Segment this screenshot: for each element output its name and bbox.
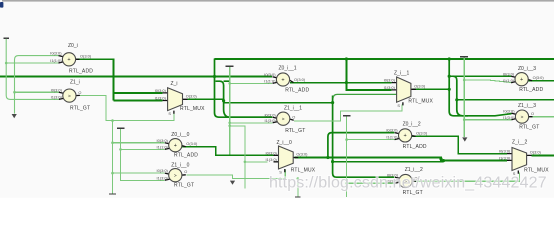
wire: Z_i__0 I1 <box>245 161 268 163</box>
wire: vertical V1 x=214.5 curving to GT1 I0 <box>215 59 273 118</box>
svg-text:Z_i__2: Z_i__2 <box>512 140 528 146</box>
adder Z0_i__1 <box>264 66 309 94</box>
svg-text:O: O <box>531 111 534 116</box>
wire: main input bus y=76.5 across to Z0_i__1.I0 <box>0 76 272 78</box>
svg-text:I0(3:0): I0(3:0) <box>264 112 276 117</box>
svg-text:RTL_GT: RTL_GT <box>519 125 539 131</box>
net marker T x=120.5 <box>117 127 125 129</box>
wire: Z1_i__1 output to Z_i__1 select <box>294 105 402 121</box>
svg-text:I1(3:0): I1(3:0) <box>155 96 167 101</box>
comparator Z1_i <box>51 80 91 112</box>
svg-text:I1(1:0): I1(1:0) <box>264 79 276 84</box>
svg-text:I0(3:0): I0(3:0) <box>266 150 278 155</box>
svg-text:I0(3:0): I0(3:0) <box>384 78 396 83</box>
svg-text:O: O <box>78 90 81 95</box>
svg-text:Z1_i__0: Z1_i__0 <box>171 163 189 169</box>
svg-text:I1(1:0): I1(1:0) <box>157 145 169 150</box>
wire: bus y=100.4 from bracket2 to right edge <box>457 99 554 101</box>
svg-text:I1(1:0): I1(1:0) <box>50 58 62 63</box>
wire: rail x=346.4 from bus to Z_i__1 mux I1 <box>346 59 391 90</box>
wire: Z0_i__0 output with step down <box>182 147 274 156</box>
svg-text:+: + <box>174 143 177 149</box>
svg-text:I0(3:0): I0(3:0) <box>157 138 169 143</box>
net arrow below Z1_i__0 output <box>230 181 235 185</box>
input port marker T top-left <box>3 37 9 39</box>
svg-text:RTL_ADD: RTL_ADD <box>285 88 309 94</box>
svg-text:I1(3:0): I1(3:0) <box>384 85 396 90</box>
junction dots dark <box>213 75 216 78</box>
svg-text:O(3:0): O(3:0) <box>80 54 92 59</box>
wire: branch to rail x=244.9 <box>230 126 245 189</box>
wire: Z0_i output down x=113.5 to Z_i mux inputs <box>76 59 114 100</box>
svg-text:I0(3:0): I0(3:0) <box>264 72 276 77</box>
adder Z0_i__3 <box>503 66 544 93</box>
svg-text:RTL_MUX: RTL_MUX <box>408 98 433 104</box>
svg-text:Z0_i__2: Z0_i__2 <box>403 121 421 127</box>
svg-text:O(3:0): O(3:0) <box>186 141 198 146</box>
wire: rail x=346.6 <box>346 117 348 197</box>
net marker T x=346.6 <box>343 115 351 117</box>
svg-text:+: + <box>403 133 406 139</box>
svg-text:I0(3:0): I0(3:0) <box>157 168 169 173</box>
wire: rail x=112.5 <box>112 121 114 194</box>
svg-text:O(3:0): O(3:0) <box>186 93 198 98</box>
comparator Z1_i__1 <box>264 105 305 133</box>
svg-text:RTL_MUX: RTL_MUX <box>524 168 549 174</box>
svg-text:I1(3:0): I1(3:0) <box>51 95 63 100</box>
net arrow at rail x=14.5 bottom <box>12 114 17 118</box>
comparator Z1_i__0 <box>157 163 195 189</box>
wire: bus y=59 from V1 to right edge <box>215 58 554 60</box>
svg-text:I0(3:0): I0(3:0) <box>50 51 62 56</box>
wire: Z1_i__2 I1 <box>347 182 395 184</box>
wire: Z1_i__2 output to Z_i__2 select <box>413 173 519 182</box>
wire: bus B2 y=102.6 to V2b <box>224 102 333 104</box>
mux Z_i__2 <box>499 140 549 177</box>
comparator Z1_i__3 <box>503 103 539 131</box>
wire: bus ripper bracket 2 <box>453 76 468 116</box>
svg-text:O: O <box>292 115 295 120</box>
svg-text:O(3:0): O(3:0) <box>533 75 545 80</box>
junction dots light <box>5 62 8 65</box>
svg-text:>: > <box>282 117 285 123</box>
wire: Z_i__1 mux output to V3 <box>412 88 449 90</box>
svg-text:RTL_MUX: RTL_MUX <box>291 168 316 174</box>
top toolbar bar <box>2 0 554 2</box>
net marker T2 x=464.2 <box>460 56 468 58</box>
svg-text:I0(3:0): I0(3:0) <box>503 108 515 113</box>
adder Z0_i <box>50 43 93 74</box>
svg-text:I0(3:0): I0(3:0) <box>386 128 398 133</box>
svg-text:I0(3:0): I0(3:0) <box>51 87 63 92</box>
svg-text:S: S <box>397 103 400 108</box>
mux Z_i__0 <box>266 140 316 175</box>
wire: Z1_i__3 output to right edge <box>529 116 554 118</box>
wire: Z0_i__3 I1 <box>464 80 511 83</box>
wire: Z1_i__1 I1 <box>230 122 273 124</box>
svg-text:+: + <box>520 77 523 83</box>
svg-text:I1(3:0): I1(3:0) <box>264 118 276 123</box>
wire: bus ripper bracket 1 <box>216 81 273 117</box>
wire: V2b branch y=161.6 <box>333 161 444 163</box>
wire: Z1_i__0 I0 <box>113 172 165 174</box>
wire: Z0_i input I1 <box>6 62 58 64</box>
svg-text:I0(3:0): I0(3:0) <box>155 88 167 93</box>
mux Z_i__1 <box>384 70 434 108</box>
net bar at rail x=112.5 bottom <box>109 193 116 195</box>
wire: branch from V2b top toward Z_i__1 <box>333 94 396 98</box>
wire: Z1_i output to Z_i mux select <box>80 95 174 120</box>
svg-text:Z0_i__1: Z0_i__1 <box>279 66 297 72</box>
svg-text:I1(1:0): I1(1:0) <box>503 78 515 83</box>
svg-text:RTL_ADD: RTL_ADD <box>69 69 93 75</box>
svg-text:Z0_i: Z0_i <box>68 43 78 49</box>
svg-text:Z_i__1: Z_i__1 <box>394 70 410 76</box>
svg-text:+: + <box>281 77 284 83</box>
wire: V2a from Z0_i__2 I0 down to Z_i__0 output bus <box>328 133 394 158</box>
window icon <box>0 2 3 8</box>
wire: Z_i mux output to bracket junction <box>188 99 224 102</box>
mux Z_i <box>155 81 205 116</box>
svg-text:RTL_ADD: RTL_ADD <box>519 87 543 93</box>
wire: vertical V3 x=449.2 curving to GT3 I0 <box>449 59 511 116</box>
svg-text:Z1_i: Z1_i <box>70 80 80 86</box>
wire: Z1_i__0 output to Z_i__0 select <box>186 170 285 179</box>
svg-text:Z0_i__3: Z0_i__3 <box>518 66 536 72</box>
wire: Z1_i__3 I1 <box>464 119 511 121</box>
svg-text:https://blog.csdn.net/weixin_4: https://blog.csdn.net/weixin_43442427 <box>269 175 547 192</box>
wire: Z0_i__2 I1 <box>347 139 395 141</box>
svg-text:I1(3:0): I1(3:0) <box>157 175 169 180</box>
svg-text:I0(3:0): I0(3:0) <box>503 71 515 76</box>
wire: stub down x=297.8 <box>297 179 299 197</box>
net marker T1 x=229.3 <box>225 65 233 67</box>
svg-text:I0(3:0): I0(3:0) <box>499 149 511 154</box>
svg-text:Z0_i__0: Z0_i__0 <box>171 132 189 138</box>
wire: Z0_i__1 I1 <box>230 82 273 84</box>
svg-text:RTL_GT: RTL_GT <box>174 183 194 189</box>
net bar at stub bottom <box>295 196 301 198</box>
svg-text:>: > <box>174 173 177 179</box>
svg-text:I1(3:0): I1(3:0) <box>266 157 278 162</box>
wire: Z0_i__3 I0 feed y=76.2 <box>449 75 511 77</box>
net arrow at rail x=464.2 bottom <box>462 137 467 141</box>
adder Z0_i__2 <box>386 121 427 150</box>
svg-text:RTL_ADD: RTL_ADD <box>174 152 198 158</box>
svg-text:O(3:0): O(3:0) <box>530 149 542 154</box>
wire: input rail x=6.2 curving into Z1_i I1 <box>6 39 59 100</box>
svg-text:O(3:0): O(3:0) <box>294 77 306 82</box>
svg-text:S: S <box>168 111 171 116</box>
svg-text:>: > <box>68 93 71 99</box>
svg-text:Z_i__0: Z_i__0 <box>277 140 293 146</box>
wire: Z0_i__1 output to Z_i__1 mux I0 <box>290 82 392 84</box>
svg-text:Z1_i__2: Z1_i__2 <box>405 167 423 173</box>
adder Z0_i__0 <box>157 132 199 158</box>
svg-text:O: O <box>184 169 187 174</box>
wire: rail x=229.7 <box>229 67 231 155</box>
wire: Z1_i input I0 <box>15 91 59 93</box>
svg-text:O(3:0): O(3:0) <box>416 131 428 136</box>
svg-text:I1(3:0): I1(3:0) <box>503 115 515 120</box>
svg-text:RTL_MUX: RTL_MUX <box>180 106 205 112</box>
svg-text:RTL_GT: RTL_GT <box>70 105 90 111</box>
svg-text:Z1_i__3: Z1_i__3 <box>518 103 536 109</box>
bottom light strip <box>0 198 554 200</box>
svg-text:>: > <box>521 114 524 120</box>
wire: rail x=464.2 <box>463 57 465 137</box>
svg-text:RTL_GT: RTL_GT <box>285 128 305 134</box>
wire: Z_i__2 mux output to right edge <box>532 154 554 156</box>
wire: Z_i__0 output bus to Z_i__2 mux I1 <box>295 158 507 161</box>
svg-text:O(3:0): O(3:0) <box>414 83 426 88</box>
svg-text:RTL_ADD: RTL_ADD <box>403 144 427 150</box>
wire: Z0_i__0 I1 <box>121 148 165 150</box>
wire: Z0_i__3 output to right edge <box>528 80 554 82</box>
wire: input rail x=14.5 from Z0_i I0 corner down <box>15 56 59 114</box>
comparator Z1_i__2 <box>387 167 423 196</box>
wire: rail x=120.5 to Z1_i__0 I1 <box>121 129 165 180</box>
svg-text:+: + <box>67 57 70 63</box>
wire: vertical V2b x=332.6 down to Z1_i__2 I0 <box>333 96 395 178</box>
wire: Z0_i__2 output to Z_i__2 mux I0 <box>412 136 507 153</box>
svg-text:Z1_i__1: Z1_i__1 <box>284 105 302 111</box>
svg-text:I1(1:0): I1(1:0) <box>386 135 398 140</box>
svg-text:Z_i: Z_i <box>171 81 178 87</box>
svg-text:I1(3:0): I1(3:0) <box>499 156 511 161</box>
svg-text:O(3:0): O(3:0) <box>296 152 308 157</box>
wire: Z0_i__0 I0 <box>113 142 165 144</box>
